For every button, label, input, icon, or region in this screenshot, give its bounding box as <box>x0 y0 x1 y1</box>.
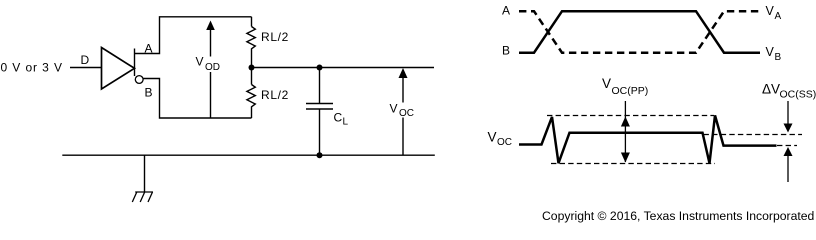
node capacitor junction bottom <box>317 152 323 158</box>
svg-text:V: V <box>766 4 775 18</box>
svg-text:L: L <box>343 117 349 128</box>
svg-text:V: V <box>488 130 497 145</box>
svg-text:B: B <box>145 86 153 100</box>
label VOC(PP) <box>602 76 648 97</box>
label CL <box>334 111 349 128</box>
node midpoint junction <box>249 65 255 71</box>
svg-text:V: V <box>766 45 775 59</box>
waveform VA dashed <box>519 11 760 53</box>
svg-text:A: A <box>145 42 153 56</box>
dashed guide SS upper <box>704 134 803 136</box>
svg-text:Copyright © 2016, Texas Instru: Copyright © 2016, Texas Instruments Inco… <box>542 209 814 223</box>
node capacitor junction top <box>317 65 323 71</box>
svg-text:A: A <box>775 11 782 22</box>
svg-text:B: B <box>775 52 782 63</box>
wire B output <box>143 79 251 119</box>
ground <box>132 192 153 202</box>
svg-text:0 V or 3 V: 0 V or 3 V <box>1 61 63 75</box>
svg-text:V: V <box>602 76 611 91</box>
wire driver output bar <box>134 49 136 77</box>
label VOD <box>196 55 221 74</box>
arrow VOC(PP) double <box>621 101 630 163</box>
waveform VOC <box>519 115 777 163</box>
label VOC circuit <box>390 102 415 120</box>
dashed guide PP bottom <box>551 163 715 165</box>
dashed guide PP top <box>547 115 714 117</box>
dashed guide SS lower <box>777 145 797 147</box>
wire midpoint to right <box>252 67 435 69</box>
arrow delta VOC(SS) lower <box>784 147 793 182</box>
svg-text:V: V <box>196 55 204 69</box>
driver buffer U1 <box>102 48 135 90</box>
svg-text:B: B <box>502 44 510 58</box>
resistor RL/2 upper <box>247 17 255 68</box>
svg-text:OC: OC <box>497 137 512 148</box>
svg-text:OC: OC <box>399 108 414 119</box>
resistor RL/2 lower <box>247 68 255 119</box>
svg-text:V: V <box>390 102 398 116</box>
label delta VOC(SS) <box>762 82 816 101</box>
svg-text:RL/2: RL/2 <box>261 30 289 44</box>
label VB <box>766 45 782 63</box>
svg-text:RL/2: RL/2 <box>261 88 289 102</box>
svg-text:C: C <box>334 111 343 125</box>
svg-text:ΔV: ΔV <box>762 82 780 97</box>
inversion bubble on B output <box>135 76 143 84</box>
svg-text:OC(SS): OC(SS) <box>780 89 816 101</box>
arrow VOC measurement <box>388 68 415 155</box>
wire ground rail <box>62 154 435 156</box>
wire D input <box>70 67 102 69</box>
svg-text:A: A <box>502 4 510 18</box>
svg-text:D: D <box>81 53 90 67</box>
label VOC waveform <box>488 130 513 149</box>
arrow VOD measurement <box>194 21 223 119</box>
waveform VB solid <box>519 11 760 53</box>
wire A output <box>135 17 252 54</box>
svg-text:OD: OD <box>205 62 220 73</box>
capacitor CL <box>306 68 333 156</box>
svg-text:OC(PP): OC(PP) <box>612 85 649 97</box>
label VA <box>766 4 782 22</box>
arrow delta VOC(SS) upper <box>784 101 793 133</box>
wire ground stem <box>144 155 146 192</box>
